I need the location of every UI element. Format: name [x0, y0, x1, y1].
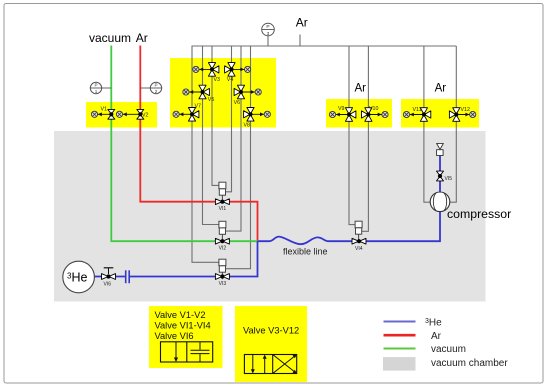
- valve VI2: [215, 238, 229, 251]
- actuator VI2: [219, 221, 226, 241]
- actuator VI3: [219, 259, 226, 279]
- panel box V9-V10: [326, 99, 392, 128]
- svg-text:Ar: Ar: [136, 31, 148, 45]
- wire drop V5 to VI2 actuator: [203, 46, 219, 225]
- svg-text:flexible line: flexible line: [283, 246, 328, 256]
- valve V2: [137, 109, 149, 119]
- wire Ar supply tick: [299, 35, 301, 47]
- valve V11: [413, 107, 431, 121]
- gauge P3: [262, 23, 275, 46]
- gauge P2: [140, 82, 161, 94]
- wire drop V7 to VI3 actuator: [192, 46, 219, 262]
- svg-text:Valve VI1-VI4: Valve VI1-VI4: [155, 320, 211, 330]
- svg-text:V12: V12: [461, 107, 470, 113]
- vent V3: [193, 66, 212, 72]
- valve VI5: [437, 171, 453, 182]
- legend panel valves V3-V12: [235, 306, 307, 382]
- vent V10: [368, 111, 388, 117]
- svg-text:Valve V1-V2: Valve V1-V2: [155, 310, 206, 320]
- valve V3: [208, 63, 220, 83]
- svg-text:VI2: VI2: [219, 245, 227, 251]
- svg-text:V11: V11: [413, 107, 422, 113]
- svg-text:V5: V5: [208, 97, 215, 103]
- actuator VI4: [355, 221, 362, 241]
- valve V4: [225, 63, 236, 83]
- vent V1: [91, 111, 111, 117]
- wire drop V12 to compressor: [449, 46, 456, 202]
- wire drop V3 to VI1 actuator: [212, 46, 219, 185]
- vent V6: [241, 89, 261, 95]
- vent V9: [329, 111, 349, 117]
- legend symbol 2/2-way valve: [161, 342, 213, 362]
- legend 3He line: [384, 317, 443, 328]
- 3He cylinder: [63, 261, 95, 293]
- valve V1: [101, 106, 115, 119]
- svg-text:1: 1: [95, 89, 98, 94]
- valve V7: [188, 104, 201, 122]
- panel box V11-V12: [401, 99, 479, 128]
- vent V2: [116, 111, 140, 117]
- vent V8: [251, 111, 271, 117]
- wire drop V10 to VI4 actuator: [362, 46, 369, 231]
- vent V11: [403, 111, 424, 117]
- svg-text:V9: V9: [338, 106, 345, 112]
- svg-text:Valve VI6: Valve VI6: [155, 331, 194, 341]
- wire flexible line to compressor (blue): [258, 211, 441, 244]
- svg-text:Ar: Ar: [431, 331, 442, 342]
- svg-text:V10: V10: [369, 106, 378, 112]
- legend vacuum line: [384, 344, 467, 355]
- wire Ar line (red): [140, 46, 257, 241]
- actuator VI1: [219, 182, 226, 202]
- coupling on 3He line: [126, 270, 130, 283]
- vent V12: [456, 111, 476, 117]
- valve V6: [234, 85, 245, 106]
- svg-text:V2: V2: [142, 112, 149, 118]
- wire drop V4 to VI1 actuator: [225, 46, 231, 192]
- legend Ar line: [384, 331, 442, 342]
- svg-text:2: 2: [155, 89, 158, 94]
- legend symbol 4/2-way valve: [244, 355, 296, 374]
- svg-text:VI5: VI5: [445, 176, 453, 182]
- svg-text:V8: V8: [244, 123, 251, 129]
- svg-text:Valve V3-V12: Valve V3-V12: [243, 325, 299, 335]
- wire drop V11 to compressor: [424, 46, 430, 202]
- compressor: [430, 192, 511, 221]
- svg-text:Ar: Ar: [296, 16, 308, 30]
- svg-text:vacuum: vacuum: [89, 31, 131, 45]
- svg-text:Ar: Ar: [355, 83, 367, 95]
- valve V9: [338, 106, 356, 121]
- svg-text:V7: V7: [195, 104, 202, 110]
- svg-text:VI4: VI4: [355, 246, 363, 252]
- filter funnel above VI5: [437, 143, 444, 155]
- wire Ar manifold: [192, 45, 457, 47]
- wire 3He line from cylinder (blue): [94, 241, 257, 276]
- svg-text:Ar: Ar: [435, 83, 447, 95]
- svg-text:V1: V1: [101, 106, 108, 112]
- svg-text:vacuum: vacuum: [431, 344, 466, 355]
- valve VI6: [102, 268, 116, 288]
- valve V12: [449, 107, 470, 122]
- svg-text:P: P: [154, 83, 157, 88]
- svg-text:3: 3: [267, 31, 270, 37]
- svg-text:VI1: VI1: [219, 206, 227, 212]
- valve VI1: [215, 199, 229, 212]
- svg-text:V6: V6: [234, 100, 241, 106]
- wire drop V8 to VI3 actuator: [226, 46, 251, 269]
- valve V5: [199, 85, 214, 103]
- vent V4: [232, 66, 251, 72]
- legend vacuum chamber swatch: [383, 357, 508, 371]
- vacuum chamber: [54, 131, 486, 302]
- svg-text:P: P: [94, 83, 97, 88]
- svg-text:VI3: VI3: [219, 281, 227, 287]
- svg-text:compressor: compressor: [447, 207, 511, 221]
- svg-text:V4: V4: [227, 77, 234, 83]
- valve V8: [244, 108, 255, 129]
- legend panel valves V1-V2 VI1-VI4 VI6: [149, 306, 223, 368]
- panel box V3-V8: [170, 58, 276, 128]
- svg-text:P: P: [266, 24, 269, 30]
- panel box V1-V2: [86, 102, 157, 128]
- svg-text:VI6: VI6: [104, 282, 112, 288]
- wire drop V9 to VI4 actuator: [349, 46, 355, 225]
- valve VI4: [352, 238, 366, 252]
- wire compressor inlet (blue): [439, 156, 441, 192]
- svg-text:V3: V3: [214, 77, 221, 83]
- svg-text:vacuum chamber: vacuum chamber: [431, 358, 508, 369]
- gauge P1: [90, 82, 111, 94]
- vent V7: [173, 111, 192, 117]
- valve VI3: [215, 274, 229, 287]
- wire drop V6 to VI2 actuator: [226, 46, 242, 231]
- valve V10: [362, 106, 379, 122]
- vent V5: [183, 89, 203, 95]
- wire vacuum line (green): [111, 46, 257, 242]
